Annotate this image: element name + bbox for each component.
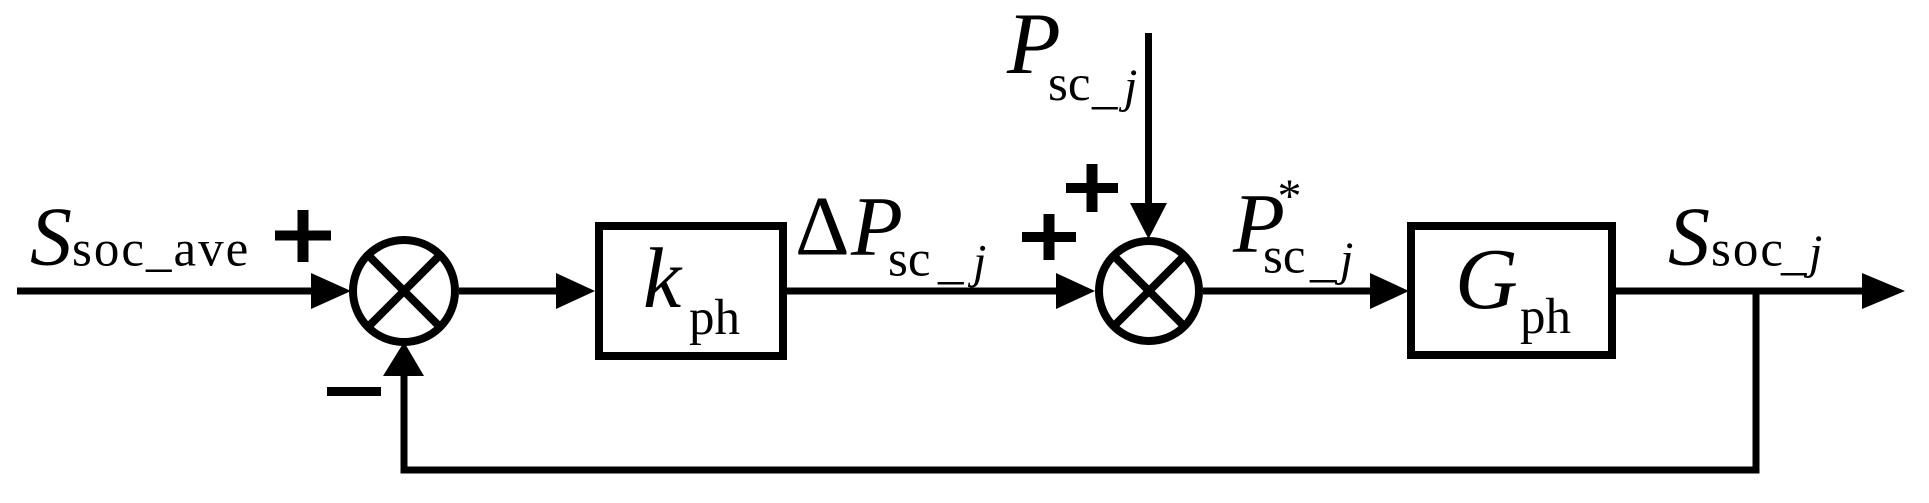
svg-text:_: _ xyxy=(937,234,964,290)
svg-text:k: k xyxy=(643,230,683,326)
svg-text:Δ: Δ xyxy=(795,180,850,274)
node delta Psc_j label xyxy=(795,180,986,291)
block kph xyxy=(599,226,783,356)
wire summing junction 2 to block Gph xyxy=(1203,273,1409,309)
summing junction 2 xyxy=(1099,241,1199,341)
block Gph xyxy=(1411,226,1612,355)
node Psc_j top label xyxy=(1006,0,1137,115)
node Ssoc_ave label xyxy=(30,191,250,284)
wire feedback vertical drop at output xyxy=(1753,291,1760,467)
plus sign upper at summing junction 2 xyxy=(1066,164,1118,212)
node Ssoc_j output label xyxy=(1668,190,1822,283)
wire feedback bottom horizontal xyxy=(401,467,1760,474)
svg-text:ph: ph xyxy=(1520,289,1571,345)
svg-text:_: _ xyxy=(1091,59,1118,115)
wire input xyxy=(17,273,351,309)
node Psc_j star label xyxy=(1232,170,1353,288)
svg-text:ph: ph xyxy=(689,290,740,346)
svg-text:G: G xyxy=(1455,230,1518,327)
plus sign lower at summing junction 2 xyxy=(1022,214,1076,260)
wire block kph to summing junction 2 xyxy=(787,273,1095,309)
svg-text:S: S xyxy=(1668,190,1710,283)
svg-text:j: j xyxy=(1118,60,1137,113)
svg-text:_: _ xyxy=(1309,232,1336,288)
svg-text:_: _ xyxy=(1780,225,1807,281)
wire output xyxy=(1616,273,1905,309)
minus sign at feedback input xyxy=(327,387,381,396)
svg-text:sc: sc xyxy=(1263,229,1305,285)
svg-text:sc: sc xyxy=(1048,56,1090,112)
svg-text:S: S xyxy=(30,191,72,284)
summing junction 1 xyxy=(353,240,455,342)
svg-text:soc_ave: soc_ave xyxy=(72,222,250,278)
wire summing junction 1 to block kph xyxy=(459,273,595,309)
svg-text:sc: sc xyxy=(888,232,930,288)
plus sign at summing junction 1 input xyxy=(275,210,331,262)
svg-text:soc: soc xyxy=(1711,222,1785,278)
svg-text:*: * xyxy=(1278,170,1302,223)
svg-text:j: j xyxy=(1334,233,1353,286)
wire feedback vertical rise to summing junction 1 xyxy=(383,342,424,470)
wire Psc_j vertical input xyxy=(1130,33,1167,239)
svg-text:j: j xyxy=(967,236,986,289)
